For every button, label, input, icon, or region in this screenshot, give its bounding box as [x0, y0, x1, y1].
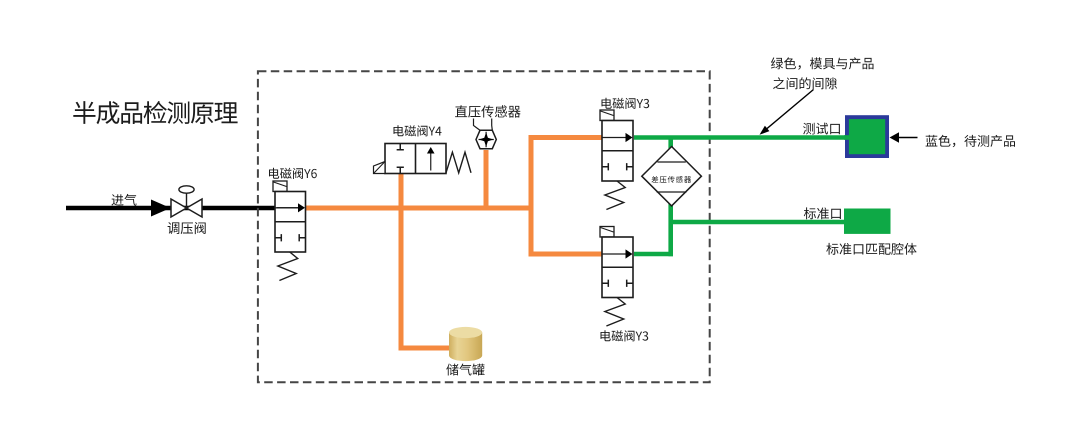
wire: orange drop from Y4 to tank — [401, 174, 450, 349]
valve 调压阀 stem and handle — [186, 194, 188, 209]
wire: orange fork vertical — [529, 138, 534, 255]
wire: orange riser to pressure sensor — [484, 150, 489, 208]
note 之间的间隙 — [773, 77, 837, 89]
port 测试口 green inner — [849, 119, 885, 154]
thin black flow line through Y6 — [277, 207, 298, 209]
wire: green vertical below diff sensor — [668, 203, 673, 256]
dashed boundary box — [258, 71, 710, 382]
sensor 直压传感器 hexagon — [476, 130, 496, 148]
wire: green standard line to standard port — [671, 220, 844, 225]
label 电磁阀Y3 (bottom) — [601, 330, 649, 341]
wire: main orange pipe from Y6 — [305, 206, 534, 211]
port 标准口 green block — [844, 209, 891, 234]
wire: air inlet black line — [66, 206, 277, 211]
solenoid valve Y3 (top) — [600, 110, 614, 121]
label 电磁阀Y3 (top) — [602, 98, 650, 109]
solenoid valve Y6 — [273, 181, 287, 192]
solenoid valve Y3 (bottom) — [600, 227, 614, 238]
annotation arrow to green line — [766, 90, 814, 130]
label 直压传感器 — [455, 105, 520, 117]
note 绿色，模具与产品 — [771, 57, 874, 69]
flow arrowhead on inlet line — [151, 200, 171, 217]
label 储气罐 — [446, 364, 484, 376]
wire: orange branch to top Y3 — [529, 135, 603, 140]
label 进气 — [112, 194, 137, 206]
label 标准口匹配腔体 — [826, 243, 916, 255]
label 差压传感器 (in diamond) — [652, 176, 692, 183]
arrow to test port (product) — [890, 132, 900, 143]
wire: green vertical through diff sensor — [668, 138, 673, 150]
label 电磁阀Y6 — [269, 168, 317, 179]
label 电磁阀Y4 — [394, 125, 442, 136]
port 测试口 blue square — [845, 115, 889, 158]
title 半成品检测原理 — [73, 101, 237, 124]
sensor leader brackets — [474, 119, 493, 131]
wire: green line overlapping port border — [844, 135, 850, 140]
solenoid valve Y4 — [385, 144, 446, 174]
wire: green stub from bottom Y3 — [634, 252, 673, 257]
valve 调压阀 bowtie — [171, 199, 202, 217]
sensor 差压传感器 diamond — [642, 147, 702, 206]
wire: green test line to test port — [634, 135, 845, 140]
wire: orange branch to bottom Y3 — [529, 252, 603, 257]
label 蓝色，待测产品 — [926, 135, 1015, 147]
label 调压阀 — [168, 222, 206, 234]
label 测试口 — [803, 123, 840, 135]
label 标准口 — [804, 207, 841, 219]
